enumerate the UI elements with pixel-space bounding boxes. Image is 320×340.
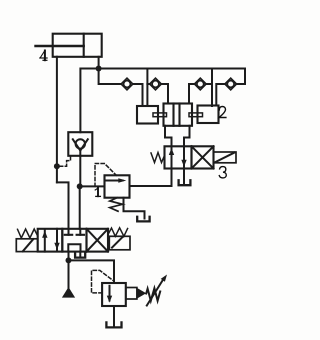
node: manifold junction [96, 66, 102, 72]
pilot line (dashed) to check valve [60, 156, 71, 166]
check valve CV3 [195, 78, 207, 90]
booster 2 right cylinder [198, 106, 219, 124]
main valve left solenoid [16, 239, 37, 252]
wire: main valve T pipe [79, 252, 81, 257]
label 2 [219, 107, 226, 118]
wire: drop D3 through CV3 tap [211, 69, 213, 107]
wire: booster pedestal to valve 3 [165, 126, 172, 147]
main valve body right position (crossed X) [87, 229, 109, 252]
pilot check valve ball [76, 139, 85, 148]
main valve down arrow [54, 229, 59, 251]
wire: node down to valve B port [79, 186, 81, 228]
wire: down to pump arrow [68, 260, 70, 288]
valve 3 solenoid [214, 152, 237, 163]
label 3 [219, 167, 226, 178]
booster 2 left rod [153, 113, 167, 117]
pressure valve poppet [137, 288, 146, 299]
pilot check valve box [68, 132, 92, 156]
main valve right solenoid [109, 236, 130, 250]
wire: CV4 out to booster right cap [216, 84, 225, 106]
wire: top manifold [99, 69, 245, 85]
main valve up arrow [42, 230, 47, 252]
tank under pressure valve [106, 322, 121, 327]
wire: CV3 out to booster centre right port [189, 84, 195, 104]
wire: drop D2 through CV2 tap [146, 69, 148, 107]
valve 3 body left position (arrows) [165, 146, 192, 168]
sequence valve 1 drain [124, 198, 145, 219]
cylinder 4 piston rod [36, 45, 84, 47]
wire: pressure valve to tank [113, 306, 115, 327]
sequence valve 1 body [105, 175, 130, 197]
cylinder 4 body [53, 34, 102, 57]
wire: supply to pressure valve [69, 260, 115, 283]
check valve CV4 [225, 78, 237, 90]
check valve CV2 [150, 78, 162, 90]
wire: valve 3 P port to supply rail [130, 169, 172, 187]
centre position blocked B port [77, 229, 84, 235]
sequence valve 1 pilot (dashed) [95, 164, 116, 187]
wire: drop D1 to CV1 [99, 69, 122, 85]
pump source triangle [62, 287, 75, 298]
tank under valve 3 [179, 180, 191, 185]
centre position blocked A port [65, 229, 72, 235]
pressure valve body [102, 283, 126, 306]
valve 3 down arrow [181, 146, 186, 168]
node: pilot tap on A line [54, 163, 60, 169]
valve 3 up arrow [169, 146, 174, 168]
pressure valve adjusting spring [146, 288, 160, 301]
pilot check valve stem [79, 150, 81, 156]
tank for valve 1 drain [137, 217, 149, 222]
label 1 [95, 188, 100, 197]
booster 2 centre cylinder [164, 104, 193, 126]
wire: CV1 out to booster left cap [133, 84, 143, 106]
wire: CV2 out to booster centre left port [161, 84, 168, 104]
booster 2 left cylinder [137, 106, 158, 124]
pressure valve adjustment arrow [147, 275, 167, 306]
node: relief branch junction [77, 183, 83, 189]
check valve CV1 [121, 78, 133, 90]
main valve right spring [108, 228, 128, 237]
wire: main valve P port [68, 252, 70, 261]
main valve left spring [18, 229, 38, 238]
wire: check valve out down to node [79, 156, 81, 187]
centre position P-T bridge [68, 244, 80, 251]
node: pump junction [66, 257, 72, 263]
wire: cylinder left port down [56, 57, 58, 183]
wire: valve 3 tank pipe [183, 169, 185, 185]
main valve body centre position [62, 229, 86, 252]
booster 2 pistons [172, 104, 174, 126]
sequence valve 1 spring [110, 198, 123, 212]
booster 2 right rod [189, 113, 203, 117]
label 4 [40, 51, 47, 61]
valve 3 spring [151, 153, 165, 163]
wire: jog to valve A port [57, 182, 69, 228]
pressure valve pilot (dashed) [92, 270, 114, 293]
wire: cylinder right port down to manifold [98, 57, 100, 69]
wire: branch left to check valve column [80, 69, 98, 133]
wire: manifold end into CV4 [236, 83, 245, 85]
main valve body left position (parallel arrows) [38, 229, 63, 252]
wire: tap to CV2 [147, 83, 150, 85]
wire: tap to CV3 [206, 83, 212, 85]
pressure valve pilot seat box [126, 288, 137, 300]
pressure valve down arrow [107, 286, 112, 303]
tank under main valve [75, 254, 85, 258]
wire: node to valve 1 inlet [80, 185, 105, 187]
cylinder 4 piston [83, 34, 85, 57]
pilot check valve seat [73, 139, 88, 150]
sequence valve 1 flow arrow [106, 178, 126, 182]
valve 3 body right position (blocked X) [192, 146, 214, 168]
